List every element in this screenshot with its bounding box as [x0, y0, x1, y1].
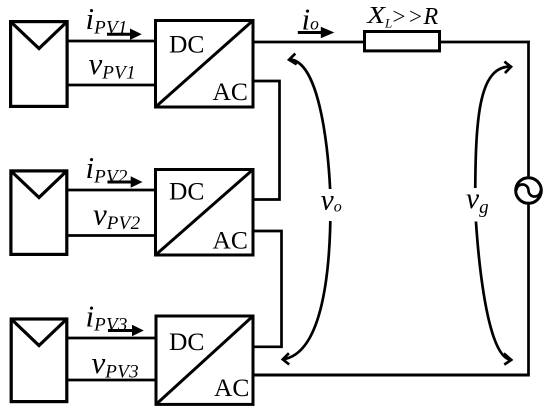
- svg-text:X: X: [366, 1, 387, 28]
- converter U2 DC/AC block 2: [156, 170, 254, 256]
- wire PV2 bottom: [67, 234, 156, 237]
- vg measurement arc: [475, 67, 511, 360]
- wire right rail upper: [527, 41, 530, 178]
- label vg white backing: [463, 188, 492, 222]
- wire top rail left of XL box: [253, 41, 365, 44]
- wire right rail lower: [527, 204, 530, 376]
- svg-text:L>>R: L>>R: [384, 4, 439, 31]
- inductor XL box: [365, 32, 440, 51]
- arrow io: [298, 27, 335, 38]
- converter U1 DC/AC block 1: [156, 21, 254, 108]
- wire PV2 top: [67, 189, 156, 192]
- wire bus block2-bottom to block3-top: [253, 231, 282, 347]
- wire PV1 top: [67, 40, 156, 43]
- svg-text:DC: DC: [169, 177, 204, 206]
- arrow iPV1: [107, 29, 142, 40]
- vo arc arrowhead bottom: [283, 353, 289, 364]
- wire bus block1-bottom to block2-top: [253, 81, 280, 200]
- converter U3 DC/AC block 3: [156, 316, 253, 404]
- wire PV3 bottom: [67, 379, 156, 382]
- AC source grid: [516, 178, 542, 204]
- wire top rail right of XL box: [440, 41, 530, 44]
- label vo white backing: [317, 189, 347, 221]
- vg arc arrowhead top: [504, 62, 511, 74]
- svg-text:AC: AC: [214, 373, 249, 402]
- PV panel PV1: [11, 22, 68, 107]
- arrow iPV3: [108, 325, 144, 336]
- vo arc arrowhead top: [289, 54, 297, 65]
- arrow iPV2: [108, 176, 143, 187]
- svg-text:DC: DC: [169, 29, 204, 58]
- vo measurement arc: [283, 60, 331, 360]
- svg-text:DC: DC: [169, 327, 204, 356]
- PV panel PV3: [11, 319, 67, 402]
- PV panel PV2: [11, 171, 67, 255]
- svg-text:AC: AC: [213, 77, 248, 106]
- vg arc arrowhead bottom: [504, 353, 511, 364]
- wire PV3 top: [67, 337, 156, 340]
- wire PV1 bottom: [67, 84, 156, 87]
- wire bottom rail: [253, 374, 530, 377]
- svg-text:AC: AC: [213, 226, 248, 255]
